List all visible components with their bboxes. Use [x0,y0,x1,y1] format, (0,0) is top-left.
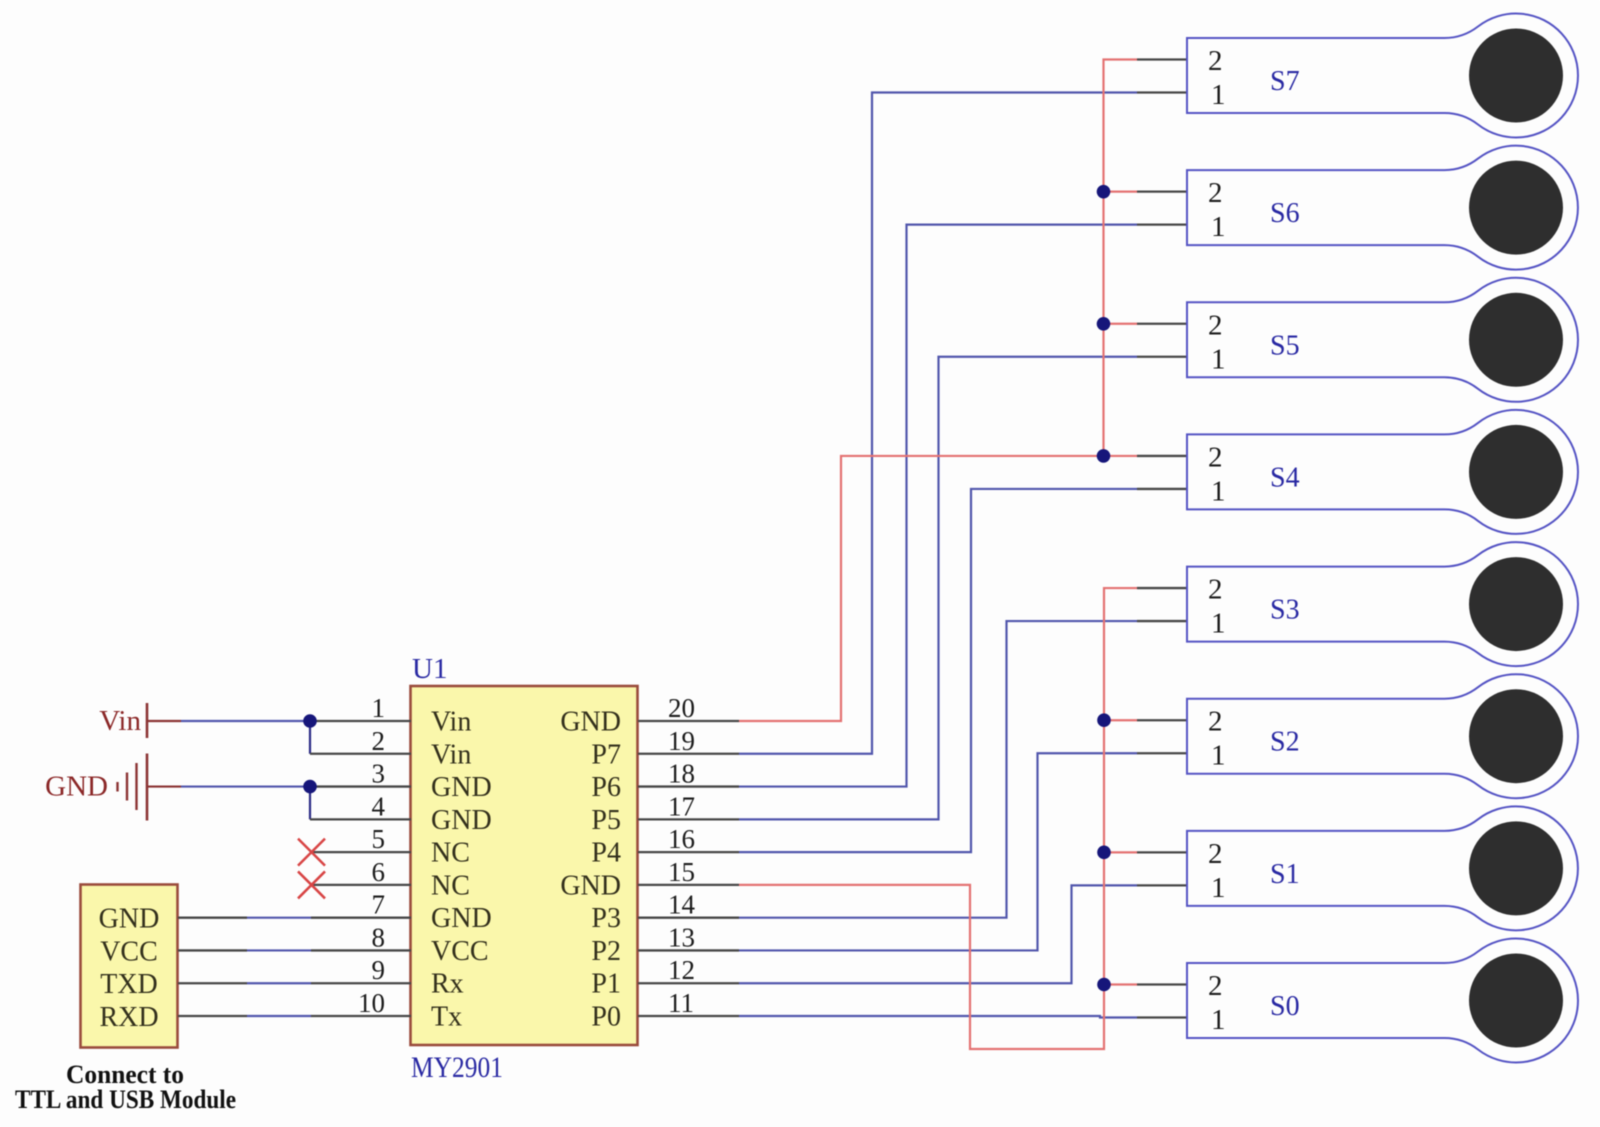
sensor S0 refdes label [1270,991,1300,1022]
svg-text:2: 2 [1208,574,1223,606]
U1 refdes label [412,653,447,685]
svg-text:S3: S3 [1270,595,1300,626]
svg-text:RXD: RXD [99,1002,158,1033]
sensor S3 electrode body [1187,542,1578,666]
svg-text:VCC: VCC [431,936,489,967]
svg-text:1: 1 [1211,608,1226,640]
svg-text:16: 16 [668,824,695,854]
svg-text:P3: P3 [591,903,621,934]
U1 pin 3 (GND) number and name [372,759,492,804]
no-connect X mark pin 6 [298,871,325,898]
svg-text:U1: U1 [412,653,447,685]
svg-text:GND: GND [560,707,621,738]
svg-text:Vin: Vin [99,705,141,737]
sensor S4 electrode body [1187,410,1578,534]
svg-text:1: 1 [1211,475,1226,507]
wire stub S0 pin 2 [1137,983,1187,985]
svg-text:GND: GND [431,772,492,803]
svg-text:3: 3 [372,759,386,789]
svg-text:GND: GND [99,904,160,935]
U1 pin 4 (GND) number and name [372,791,492,836]
sensor S4 pin numbers [1208,441,1226,507]
wire net GND upper: vertical bus to S7.2 [1104,60,1138,456]
sensor S4 electrode pad [1469,425,1563,519]
wire net GND upper: red bus from pin20 up to S4.2 row [739,456,1104,721]
svg-text:11: 11 [668,988,694,1018]
wire stub S5 pin 2 [1137,323,1187,325]
svg-text:8: 8 [372,922,386,952]
U1 pin 11 (P0) number and name [591,988,694,1033]
svg-text:2: 2 [1208,441,1223,473]
svg-text:Tx: Tx [431,1002,462,1033]
svg-text:15: 15 [668,857,695,887]
U1 pin 5 (NC) number and name [372,824,470,869]
port Vin terminal bar [146,703,149,738]
sensor S0 electrode pad [1469,954,1563,1048]
wire Vin branch to U1 pin2 [310,721,411,754]
connector J1 pin label TXD [100,969,158,1000]
U1 pin 1 (Vin) number and name [372,693,472,738]
svg-text:2: 2 [1208,45,1223,77]
connector J1 pin label GND [99,904,160,935]
svg-text:S7: S7 [1270,66,1300,97]
svg-text:20: 20 [668,693,695,723]
svg-text:Rx: Rx [431,969,464,1000]
sensor S6 electrode body [1187,146,1578,270]
svg-text:P7: P7 [591,739,621,770]
svg-text:P2: P2 [591,936,621,967]
svg-text:P6: P6 [591,772,621,803]
wire net P0: U1 pin 11 to S0 pin 1 [638,1016,1187,1017]
sensor S7 pin numbers [1208,45,1226,111]
wire branch GND lower to S1 pin 2 [1104,851,1137,853]
wire net GND upper: U1 pin 20 stub [638,720,739,722]
sensor S2 refdes label [1270,727,1300,758]
svg-text:GND: GND [431,805,492,836]
wire stub S7 pin 2 [1137,58,1187,60]
sensor S5 refdes label [1270,330,1300,361]
svg-text:18: 18 [668,759,695,789]
U1 pin 10 (Tx) number and name [358,988,462,1033]
svg-text:1: 1 [372,693,386,723]
U1 pin 9 (Rx) number and name [372,955,464,1000]
U1 pin 14 (P3) number and name [591,890,695,935]
sensor S5 pin numbers [1208,309,1226,375]
svg-text:19: 19 [668,726,695,756]
wire net P7: U1 pin 19 to S7 pin 1 [638,93,1187,754]
junction GND lower at S1.2 [1097,846,1111,860]
junction Vin node [303,714,317,728]
wire branch GND upper to S6 pin 2 [1104,191,1138,193]
svg-text:1: 1 [1211,1004,1226,1036]
svg-text:S0: S0 [1270,991,1300,1022]
sensor S7 refdes label [1270,66,1300,97]
sensor S3 pin numbers [1208,574,1226,640]
svg-text:4: 4 [372,791,386,821]
U1 pin 12 (P1) number and name [591,955,695,1000]
wire net P1: U1 pin 12 to S1 pin 1 [638,885,1187,983]
wire stub S4 pin 2 [1137,455,1187,457]
wire RXD connector to U1 pin 10 [178,1015,411,1017]
svg-text:2: 2 [1208,970,1223,1002]
svg-text:1: 1 [1211,343,1226,375]
svg-text:GND: GND [560,870,621,901]
wire branch GND lower to S0 pin 2 [1104,983,1137,985]
U1 pin 15 (GND) number and name [560,857,695,902]
sensor S6 refdes label [1270,198,1300,229]
wire branch GND upper to S4 pin 2 [1104,455,1138,457]
U1 pin 2 (Vin) number and name [372,726,472,771]
junction GND upper at S5.2 [1097,317,1111,331]
sensor S3 refdes label [1270,595,1300,626]
svg-text:2: 2 [1208,309,1223,341]
wire stub S2 pin 2 [1137,719,1187,721]
U1 pin 7 (GND) number and name [372,890,492,935]
svg-text:13: 13 [668,922,695,952]
sensor S1 electrode body [1187,806,1578,930]
wire stub S1 pin 2 [1137,851,1187,853]
svg-text:MY2901: MY2901 [411,1051,503,1084]
svg-text:14: 14 [668,890,696,920]
U1 pin 18 (P6) number and name [591,759,695,804]
sensor S1 refdes label [1270,859,1300,890]
port Vin label [99,705,141,737]
svg-text:1: 1 [1211,872,1226,904]
ground symbol (bars) [118,754,148,821]
sensor S7 electrode body [1187,13,1578,137]
sensor S0 pin numbers [1208,970,1226,1036]
connector J1 pin label VCC [100,936,158,967]
U1 pin 20 (GND) number and name [560,693,695,738]
svg-text:NC: NC [431,838,470,869]
wire net GND lower: U1 pin 15 stub [638,884,739,886]
no-connect X mark pin 5 [298,839,325,866]
svg-text:S5: S5 [1270,330,1300,361]
wire VCC connector to U1 pin 8 [178,949,411,951]
connector J1 pin label RXD [99,1002,158,1033]
svg-text:1: 1 [1211,79,1226,111]
wire Vin to U1 pin1 [147,720,411,722]
U1 pin 13 (P2) number and name [591,922,695,967]
wire net P2: U1 pin 13 to S2 pin 1 [638,753,1187,950]
wire net P6: U1 pin 18 to S6 pin 1 [638,225,1187,787]
wire branch GND upper to S5 pin 2 [1104,323,1138,325]
wire stub U1 pin 6 (NC) [311,884,411,886]
svg-text:P0: P0 [591,1002,621,1033]
svg-text:6: 6 [372,857,386,887]
svg-text:P4: P4 [591,838,621,869]
svg-text:TXD: TXD [100,969,158,1000]
wire stub S6 pin 2 [1137,190,1187,192]
U1 pin 6 (NC) number and name [372,857,470,902]
svg-text:S1: S1 [1270,859,1300,890]
junction GND upper at S4.2 [1097,449,1111,463]
sensor S5 electrode pad [1469,293,1563,387]
svg-text:9: 9 [372,955,386,985]
svg-text:10: 10 [358,988,385,1018]
wire net P4: U1 pin 16 to S4 pin 1 [638,489,1187,852]
svg-text:2: 2 [1208,838,1223,870]
junction GND lower at S2.2 [1097,713,1111,727]
sensor S1 electrode pad [1469,821,1563,915]
sensor S2 pin numbers [1208,706,1226,772]
svg-text:P5: P5 [591,805,621,836]
svg-text:2: 2 [1208,706,1223,738]
svg-text:Vin: Vin [431,739,471,770]
wire stub S3 pin 2 [1137,587,1187,589]
svg-text:GND: GND [431,903,492,934]
sensor S6 electrode pad [1469,161,1563,255]
junction GND lower at S0.2 [1097,978,1111,992]
junction GND node [303,780,317,794]
wire net GND lower: red bus pin15 down and around to S3.2 [739,588,1137,1049]
svg-text:Vin: Vin [431,707,471,738]
svg-text:S6: S6 [1270,198,1300,229]
svg-text:2: 2 [372,726,386,756]
svg-text:2: 2 [1208,177,1223,209]
wire GND branch to U1 pin4 [310,787,411,820]
sensor S2 electrode pad [1469,689,1563,783]
sensor S1 pin numbers [1208,838,1226,904]
sensor S7 electrode pad [1469,29,1563,123]
svg-text:TTL and USB Module: TTL and USB Module [15,1085,236,1114]
sensor S0 electrode body [1187,938,1578,1062]
svg-text:NC: NC [431,870,470,901]
U1 value label MY2901 [411,1051,503,1084]
svg-text:17: 17 [668,791,695,821]
svg-text:1: 1 [1211,740,1226,772]
port GND label [45,771,108,803]
wire net P3: U1 pin 14 to S3 pin 1 [638,621,1187,918]
wire GND connector to U1 pin 7 [178,917,411,919]
svg-text:12: 12 [668,955,695,985]
sensor S3 electrode pad [1469,557,1563,651]
svg-text:GND: GND [45,771,108,803]
svg-text:7: 7 [372,890,386,920]
svg-text:P1: P1 [591,969,621,1000]
U1 pin 19 (P7) number and name [591,726,695,771]
svg-text:5: 5 [372,824,386,854]
U1 pin 16 (P4) number and name [591,824,695,869]
svg-text:VCC: VCC [100,936,158,967]
sensor S5 electrode body [1187,278,1578,402]
note text: Connect to TTL and USB Module [15,1060,236,1114]
svg-text:S4: S4 [1270,462,1300,493]
wire GND to U1 pin3 [147,785,411,787]
wire TXD connector to U1 pin 9 [178,982,411,984]
junction GND upper at S6.2 [1097,185,1111,199]
IC U1 MY2901 body [411,686,638,1045]
U1 pin 17 (P5) number and name [591,791,695,836]
wire branch GND lower to S2 pin 2 [1104,719,1137,721]
wire net P5: U1 pin 17 to S5 pin 1 [638,357,1187,820]
svg-text:S2: S2 [1270,727,1300,758]
connector J1 TTL/USB header body [81,885,178,1048]
svg-text:1: 1 [1211,211,1226,243]
wire stub U1 pin 5 (NC) [311,851,411,853]
sensor S4 refdes label [1270,462,1300,493]
sensor S6 pin numbers [1208,177,1226,243]
sensor S2 electrode body [1187,674,1578,798]
U1 pin 8 (VCC) number and name [372,922,489,967]
